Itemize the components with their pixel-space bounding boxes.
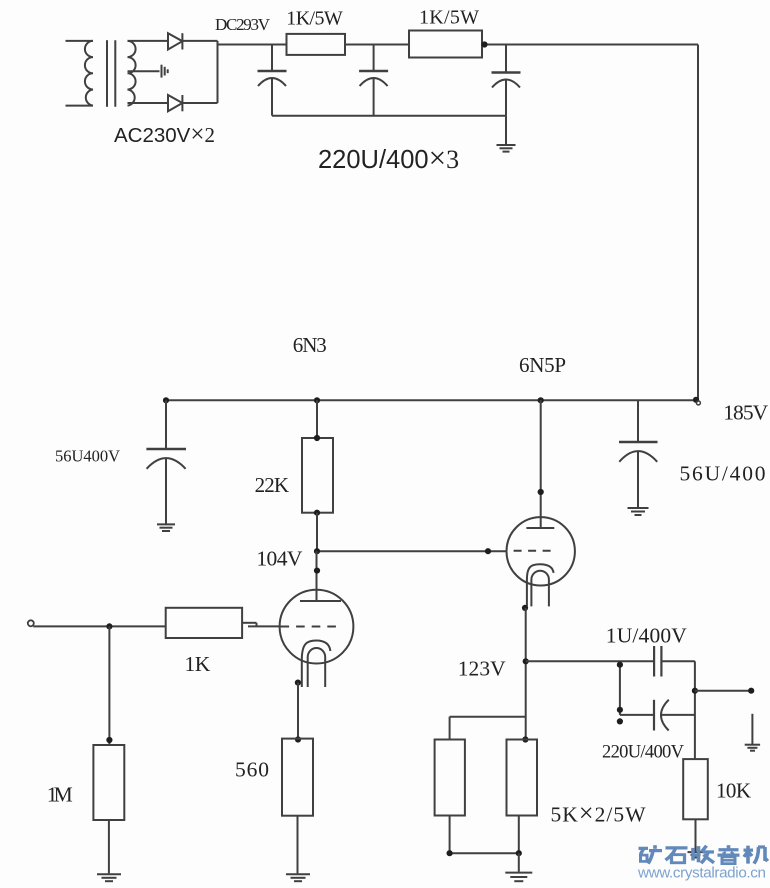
svg-text:10K: 10K	[716, 779, 751, 803]
node on grid wire	[485, 548, 491, 554]
svg-text:1K/5W: 1K/5W	[419, 7, 479, 29]
node 5K-B top	[522, 736, 528, 742]
transformer T1 core	[107, 40, 115, 107]
node 1M top	[106, 737, 112, 743]
wire 6N3 cathode down to 560	[297, 683, 299, 739]
diode D1	[168, 33, 182, 49]
svg-text:560: 560	[235, 758, 269, 782]
resistor R6 560	[282, 739, 313, 816]
resistor R4 1K	[166, 608, 242, 638]
wire C3 to ground	[505, 116, 507, 145]
watermark char 石	[666, 848, 688, 863]
svg-text:AC230V×2: AC230V×2	[114, 121, 215, 148]
svg-text:220U/400V: 220U/400V	[602, 743, 685, 763]
resistor R5 1M	[93, 745, 124, 820]
svg-text:5K×2/5W: 5K×2/5W	[551, 799, 647, 828]
wire D2 cathode to right	[182, 102, 217, 104]
ground below C3	[497, 145, 516, 152]
watermark	[637, 845, 768, 881]
capacitor C6 1U/400V	[654, 646, 661, 677]
resistor R1 1K/5W	[287, 34, 346, 55]
ground below 1M	[97, 874, 121, 881]
wire right vertical to 10K	[694, 661, 696, 759]
node 6N3 cathode	[295, 680, 301, 686]
tube V2 heater	[531, 571, 549, 607]
capacitor C3 220U/400	[492, 45, 521, 116]
node 22K top branch	[314, 397, 320, 403]
watermark char 机	[744, 846, 769, 864]
svg-text:1K: 1K	[185, 652, 211, 676]
svg-text:www.crystalradio.cn: www.crystalradio.cn	[637, 865, 766, 882]
wire 10K to ground	[695, 819, 697, 851]
resistor R8 5K	[507, 740, 538, 816]
node top of left vertical	[617, 662, 623, 668]
tube V1 heater	[308, 648, 326, 687]
terminal 185V open circle	[696, 401, 700, 405]
wire right ground stub	[751, 714, 753, 744]
ground below 560	[286, 874, 310, 881]
transformer T1 secondary winding	[128, 41, 136, 106]
wire 123V to 1U cap	[526, 660, 654, 662]
watermark char 收	[693, 846, 714, 864]
node 22K bottom pin	[314, 510, 320, 516]
tube V1 anode plate	[300, 600, 341, 602]
wire output stub	[695, 690, 751, 692]
svg-text:1K/5W: 1K/5W	[286, 8, 343, 30]
node 6N5P anode branch	[538, 397, 544, 403]
svg-text:1M: 1M	[47, 783, 73, 807]
wire 5K top bus	[450, 716, 526, 718]
svg-text:123V: 123V	[458, 657, 506, 681]
wire to 220U cap	[620, 714, 654, 716]
svg-text:DC293V: DC293V	[215, 15, 271, 34]
node 104V junction	[314, 548, 320, 554]
wire 1M branch vertical	[108, 626, 110, 745]
wire secondary top to diode	[128, 40, 169, 42]
tube V1 grid (dashed)	[281, 626, 337, 628]
ground center-tap (sideways)	[162, 65, 168, 78]
wire 560 to ground	[297, 816, 299, 874]
wire parallel-cap left vertical	[619, 661, 621, 715]
wire rectifier output vertical	[217, 41, 219, 103]
ground below C5	[628, 508, 649, 515]
wire 22K bottom to 104V node	[316, 513, 318, 552]
tube V1 6N3 envelope	[280, 590, 354, 664]
wire main B+ bus	[166, 399, 698, 401]
node after R2	[481, 41, 487, 47]
ground right	[745, 745, 760, 751]
ground below C4	[157, 524, 175, 531]
wire 104V node to 6N5P grid	[317, 550, 507, 552]
resistor R2 1K/5W	[409, 31, 482, 58]
wire DC bus segment 2	[345, 44, 409, 46]
diode D2	[168, 95, 182, 111]
wire 5K bus to ground	[518, 853, 520, 872]
wire secondary bottom to diode	[128, 102, 169, 104]
node on 6N5P anode lead	[538, 489, 544, 495]
node lower on left vertical	[617, 707, 623, 713]
node bus left end	[163, 397, 169, 403]
svg-text:6N5P: 6N5P	[519, 353, 566, 377]
wire DC bus segment 1	[218, 44, 287, 46]
tube V1 cathode	[302, 641, 331, 688]
wire 220U cap to right vertical	[661, 714, 695, 716]
node 5K-A bottom	[447, 850, 453, 856]
resistor R9 10K	[683, 759, 708, 819]
svg-text:22K: 22K	[255, 473, 290, 497]
transformer T1 primary winding	[66, 41, 94, 106]
wire input to 1K	[33, 625, 166, 627]
wire 5K bottom bus	[450, 852, 519, 854]
ground below 10K	[688, 852, 704, 857]
node 560 top	[295, 736, 301, 742]
svg-text:6N3: 6N3	[293, 333, 327, 357]
node 185V junction	[693, 397, 699, 403]
node 22K top pin	[314, 435, 320, 441]
svg-text:104V: 104V	[256, 547, 302, 571]
wire 1M to ground	[108, 820, 110, 873]
node below corner	[617, 718, 623, 724]
resistor R7 5K	[435, 740, 465, 816]
wire 22K top lead	[316, 400, 318, 438]
capacitor C1 220U/400	[258, 45, 287, 116]
wire right vertical B+	[697, 45, 699, 401]
wire 5K-A top stub	[449, 717, 451, 740]
wire 1K output jog	[242, 623, 280, 627]
input terminal	[28, 620, 34, 626]
resistor R3 22K	[302, 438, 333, 513]
node output junction	[692, 688, 698, 694]
capacitor C4 56U400V	[146, 400, 186, 523]
wire 6N3 anode lead	[316, 551, 318, 601]
svg-text:185V: 185V	[723, 401, 768, 425]
tube V2 anode plate	[526, 527, 554, 529]
watermark char 矿	[639, 845, 663, 863]
capacitor C5 56U/400	[619, 400, 658, 507]
svg-text:1U/400V: 1U/400V	[606, 624, 687, 648]
svg-text:56U400V: 56U400V	[55, 447, 120, 466]
wire 5K-B bottom stub	[518, 816, 520, 854]
capacitor C2 220U/400	[359, 45, 388, 116]
wire filter bottom bus	[272, 115, 506, 117]
node 5K-B bottom	[516, 850, 522, 856]
node on 6N3 anode lead	[314, 568, 320, 574]
node output end	[748, 688, 754, 694]
node input junction	[106, 623, 112, 629]
wire 5K-A bottom stub	[449, 816, 451, 854]
node 123V junction	[523, 658, 529, 664]
tube V2 cathode	[527, 564, 554, 606]
wire 6N5P cathode down	[525, 608, 527, 740]
wire 1U cap to right vertical	[661, 660, 695, 662]
tube V2 grid (dashed)	[514, 550, 558, 552]
capacitor C7 220U/400V	[654, 700, 669, 731]
ground below 5K	[505, 873, 532, 882]
node 6N5P cathode	[522, 605, 528, 611]
wire D1 cathode to right	[182, 40, 217, 42]
wire center tap	[128, 70, 160, 72]
wire 6N5P anode lead	[540, 400, 542, 528]
tube V2 6N5P envelope	[507, 517, 575, 585]
wire DC bus segment 3	[482, 44, 698, 46]
watermark char 音	[718, 845, 740, 863]
svg-text:56U/400: 56U/400	[680, 462, 766, 486]
svg-text:220U/400×3: 220U/400×3	[318, 140, 459, 175]
